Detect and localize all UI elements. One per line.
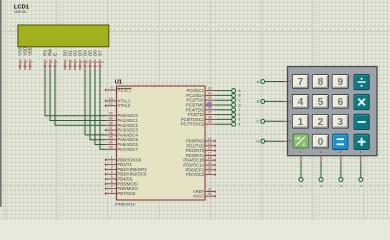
svg-text:22: 22 — [208, 87, 212, 91]
svg-text:8: 8 — [318, 77, 324, 88]
svg-text:4: 4 — [111, 170, 113, 174]
svg-text:2: 2 — [111, 161, 113, 165]
svg-text:4: 4 — [298, 97, 304, 108]
svg-text:6: 6 — [111, 180, 113, 184]
svg-text:C: C — [303, 142, 306, 147]
svg-text:39: 39 — [109, 117, 113, 121]
svg-text:19: 19 — [208, 161, 212, 165]
svg-text:A: A — [289, 80, 291, 84]
svg-text:15: 15 — [208, 142, 212, 146]
svg-text:B: B — [289, 99, 291, 103]
svg-text:E: E — [52, 53, 57, 56]
svg-text:PC7/TOSC2: PC7/TOSC2 — [181, 122, 205, 127]
svg-text:PA7/ADC7: PA7/ADC7 — [117, 147, 138, 152]
svg-text:18: 18 — [208, 156, 212, 160]
svg-text:4: 4 — [238, 123, 240, 127]
svg-text:6: 6 — [337, 97, 343, 108]
svg-text:3: 3 — [337, 117, 343, 128]
svg-text:28: 28 — [208, 115, 212, 119]
svg-text:LM016L: LM016L — [14, 10, 27, 14]
svg-text:40: 40 — [109, 112, 113, 116]
svg-text:37: 37 — [109, 126, 113, 130]
svg-text:PD7/OC2: PD7/OC2 — [186, 172, 205, 177]
svg-text:0: 0 — [318, 137, 324, 148]
svg-text:D7: D7 — [97, 50, 102, 56]
svg-text:21: 21 — [208, 171, 212, 175]
svg-text:38: 38 — [109, 121, 113, 125]
svg-text:9: 9 — [111, 86, 113, 90]
svg-text:20: 20 — [208, 166, 212, 170]
svg-text:35: 35 — [109, 136, 113, 140]
svg-text:13: 13 — [109, 97, 113, 101]
svg-text:24: 24 — [208, 96, 212, 100]
svg-text:1: 1 — [111, 156, 113, 160]
svg-text:34: 34 — [109, 141, 113, 145]
svg-text:8: 8 — [111, 189, 113, 193]
svg-text:ATMEGA16: ATMEGA16 — [115, 202, 135, 206]
svg-text:5: 5 — [318, 97, 324, 108]
svg-text:33: 33 — [109, 145, 113, 149]
svg-text:17: 17 — [208, 151, 212, 155]
svg-text:3: 3 — [111, 165, 113, 169]
svg-text:PB7/SCK: PB7/SCK — [117, 191, 135, 196]
svg-text:29: 29 — [208, 120, 212, 124]
svg-text:9: 9 — [337, 77, 343, 88]
svg-text:XTAL2: XTAL2 — [117, 103, 130, 108]
svg-text:1: 1 — [298, 117, 304, 128]
svg-text:14: 14 — [208, 137, 212, 141]
svg-text:AVCC: AVCC — [193, 194, 204, 199]
svg-text:23: 23 — [208, 91, 212, 95]
svg-text:32: 32 — [208, 188, 212, 192]
svg-text:7: 7 — [111, 185, 113, 189]
svg-text:3: 3 — [238, 118, 240, 122]
svg-text:27: 27 — [208, 111, 212, 115]
svg-text:16: 16 — [208, 147, 212, 151]
svg-text:5: 5 — [111, 175, 113, 179]
svg-text:2: 2 — [238, 113, 240, 117]
svg-text:12: 12 — [109, 102, 113, 106]
svg-text:36: 36 — [109, 131, 113, 135]
svg-text:U1: U1 — [115, 79, 122, 85]
svg-text:1: 1 — [238, 108, 240, 112]
svg-text:30: 30 — [208, 192, 212, 196]
svg-text:VEE: VEE — [27, 47, 32, 56]
svg-text:C: C — [289, 119, 291, 123]
svg-text:ON: ON — [295, 137, 301, 141]
svg-text:D: D — [289, 139, 291, 143]
svg-text:2: 2 — [318, 117, 324, 128]
svg-text:7: 7 — [298, 77, 304, 88]
